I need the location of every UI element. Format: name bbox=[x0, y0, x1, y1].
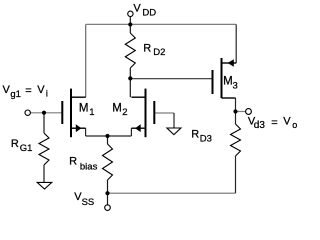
node: RD2 bottom / M3 gate junction bbox=[128, 76, 132, 80]
node: VDD rail junction bbox=[128, 22, 132, 26]
svg-text:=: = bbox=[271, 117, 277, 129]
wire: bottom rail VSS to RD3 bbox=[108, 192, 236, 194]
svg-text:d3: d3 bbox=[254, 120, 266, 131]
svg-text:R: R bbox=[69, 155, 77, 167]
terminal input Vg1 bbox=[25, 110, 30, 115]
svg-text:DD: DD bbox=[142, 8, 156, 19]
wire: source node to Rbias bbox=[107, 136, 109, 144]
resistor RD3 bbox=[231, 124, 241, 156]
wire: M1 source corner down bbox=[85, 128, 87, 136]
wire: top VDD rail bbox=[86, 23, 237, 25]
svg-text:2: 2 bbox=[122, 107, 127, 118]
wire: VDD terminal stem bbox=[129, 16, 131, 24]
svg-text:g1: g1 bbox=[10, 89, 21, 100]
svg-text:bias: bias bbox=[80, 162, 98, 173]
svg-text:G1: G1 bbox=[20, 143, 33, 154]
svg-text:V: V bbox=[37, 84, 45, 96]
svg-text:V: V bbox=[133, 2, 141, 14]
svg-text:M: M bbox=[223, 76, 233, 88]
svg-text:M: M bbox=[112, 103, 122, 115]
wire: M2 gate ground drop bbox=[173, 113, 175, 128]
svg-text:D3: D3 bbox=[200, 133, 212, 144]
svg-text:SS: SS bbox=[82, 197, 95, 208]
svg-text:V: V bbox=[283, 116, 291, 128]
wire: M2 gate to ground bbox=[154, 112, 174, 114]
wire: RG1 bottom to ground bbox=[43, 165, 45, 182]
svg-text:o: o bbox=[292, 120, 297, 130]
wire: M2 source corner down bbox=[130, 128, 132, 136]
wire: VSS node to VSS terminal bbox=[107, 193, 109, 204]
svg-text:R: R bbox=[11, 138, 19, 150]
svg-text:3: 3 bbox=[233, 80, 238, 91]
svg-text:i: i bbox=[46, 89, 48, 99]
svg-text:1: 1 bbox=[89, 107, 94, 118]
svg-text:=: = bbox=[25, 85, 31, 97]
transistor M1 bbox=[62, 89, 85, 138]
wire: rail down to M3 source bbox=[235, 24, 237, 63]
wire: RD3 bottom column bbox=[235, 156, 237, 193]
svg-text:D2: D2 bbox=[153, 47, 165, 58]
node: input gate junction bbox=[42, 111, 46, 115]
ground (below RG1) bbox=[37, 182, 52, 189]
wire: input terminal to M1 gate bbox=[30, 112, 62, 114]
wire: Rbias bottom to VSS node bbox=[107, 180, 109, 193]
resistor Rbias bbox=[103, 144, 113, 180]
svg-text:R: R bbox=[143, 43, 151, 55]
svg-text:R: R bbox=[191, 128, 199, 140]
wire: rail to RD2 top bbox=[129, 24, 131, 33]
node: VSS junction bbox=[105, 191, 109, 195]
svg-text:V: V bbox=[3, 84, 11, 96]
transistor M3 bbox=[213, 58, 237, 98]
resistor RD2 bbox=[125, 33, 135, 68]
svg-text:M: M bbox=[79, 103, 89, 115]
wire: output node stub to terminal bbox=[236, 111, 246, 113]
terminal VSS bbox=[105, 205, 111, 211]
wire: input node down to RG1 bbox=[43, 113, 45, 133]
wire: common source rail bbox=[86, 135, 132, 137]
wire: RD2 bottom through node to M2 drain bbox=[129, 68, 131, 97]
resistor RG1 bbox=[39, 133, 49, 165]
terminal output Vd3 bbox=[246, 109, 252, 115]
transistor M2 bbox=[131, 89, 154, 138]
wire: node to M3 gate bbox=[130, 78, 212, 80]
terminal VDD bbox=[128, 11, 133, 16]
node: common source junction bbox=[105, 134, 109, 138]
ground (M2 gate) bbox=[167, 128, 181, 135]
wire: M1 drain to top rail bbox=[85, 24, 87, 97]
node: output junction bbox=[233, 109, 237, 113]
wire: RD3 top to output node and M3 drain bbox=[235, 98, 237, 124]
